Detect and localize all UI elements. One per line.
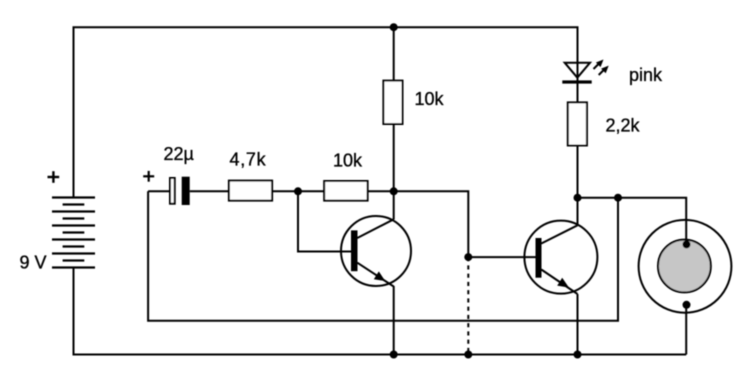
svg-text:9 V: 9 V xyxy=(20,253,47,273)
wire R1 to R2 xyxy=(272,190,324,192)
node dot Q2 base xyxy=(464,253,472,261)
capacitor C1 22u negative plate xyxy=(182,177,190,205)
capacitor C1 plus sign xyxy=(143,171,154,182)
LED light arrow 2 xyxy=(599,66,609,75)
node dot Q2 emitter bottom xyxy=(574,351,582,359)
wire input to capacitor xyxy=(148,190,169,192)
node dot speaker top xyxy=(683,240,691,248)
node dot Q2 collector xyxy=(574,194,582,202)
node dot Q1 emitter bottom xyxy=(390,351,398,359)
transistor Q1 xyxy=(341,216,411,287)
svg-text:pink: pink xyxy=(629,65,663,85)
wire T2 base xyxy=(468,256,535,258)
svg-text:4,7k: 4,7k xyxy=(230,150,267,170)
wire T1 column top xyxy=(393,27,395,80)
wire node to coupling xyxy=(394,191,469,257)
node dot top rail xyxy=(390,23,398,31)
wire T1 column bottom xyxy=(393,286,395,355)
transistor Q2 xyxy=(524,221,597,294)
wire left rail bottom xyxy=(74,268,687,355)
speaker LS1 inner xyxy=(658,240,711,293)
wire top rail xyxy=(74,27,578,197)
resistor R3 10k vertical xyxy=(383,81,402,124)
wire dashed link xyxy=(467,257,469,354)
node dot feedback top xyxy=(614,194,622,202)
resistor R2 10k horizontal xyxy=(324,181,367,201)
resistor R1 4,7k xyxy=(229,181,272,201)
wire T1 column mid xyxy=(393,124,395,220)
wire T1 base xyxy=(298,191,351,251)
node dot R1-R2 junction xyxy=(294,187,302,195)
battery plus sign xyxy=(48,171,60,183)
node dot R2-R3 junction xyxy=(390,187,398,195)
wire T2 collector xyxy=(577,198,579,226)
svg-text:10k: 10k xyxy=(333,151,363,171)
svg-text:2,2k: 2,2k xyxy=(606,115,641,135)
wire capacitor to R1 xyxy=(190,190,229,192)
speaker LS1 outer xyxy=(639,220,732,313)
node dot dashed bottom xyxy=(464,351,472,359)
wire speaker bottom xyxy=(685,305,687,355)
resistor R4 2,2k xyxy=(568,102,587,145)
node dot speaker bottom xyxy=(683,301,691,309)
LED D1 xyxy=(562,63,591,84)
wire R2 to node xyxy=(368,190,394,192)
wire feedback loop xyxy=(148,191,618,320)
svg-text:10k: 10k xyxy=(415,89,445,109)
wire R4 to collector node xyxy=(577,146,579,198)
LED light arrow 1 xyxy=(594,60,604,70)
svg-text:22µ: 22µ xyxy=(164,144,194,164)
wire T2 emitter bottom xyxy=(577,294,579,355)
wire collector row to speaker xyxy=(578,198,687,245)
battery BAT1 9V xyxy=(52,198,95,268)
capacitor C1 22u positive plate xyxy=(170,178,175,204)
